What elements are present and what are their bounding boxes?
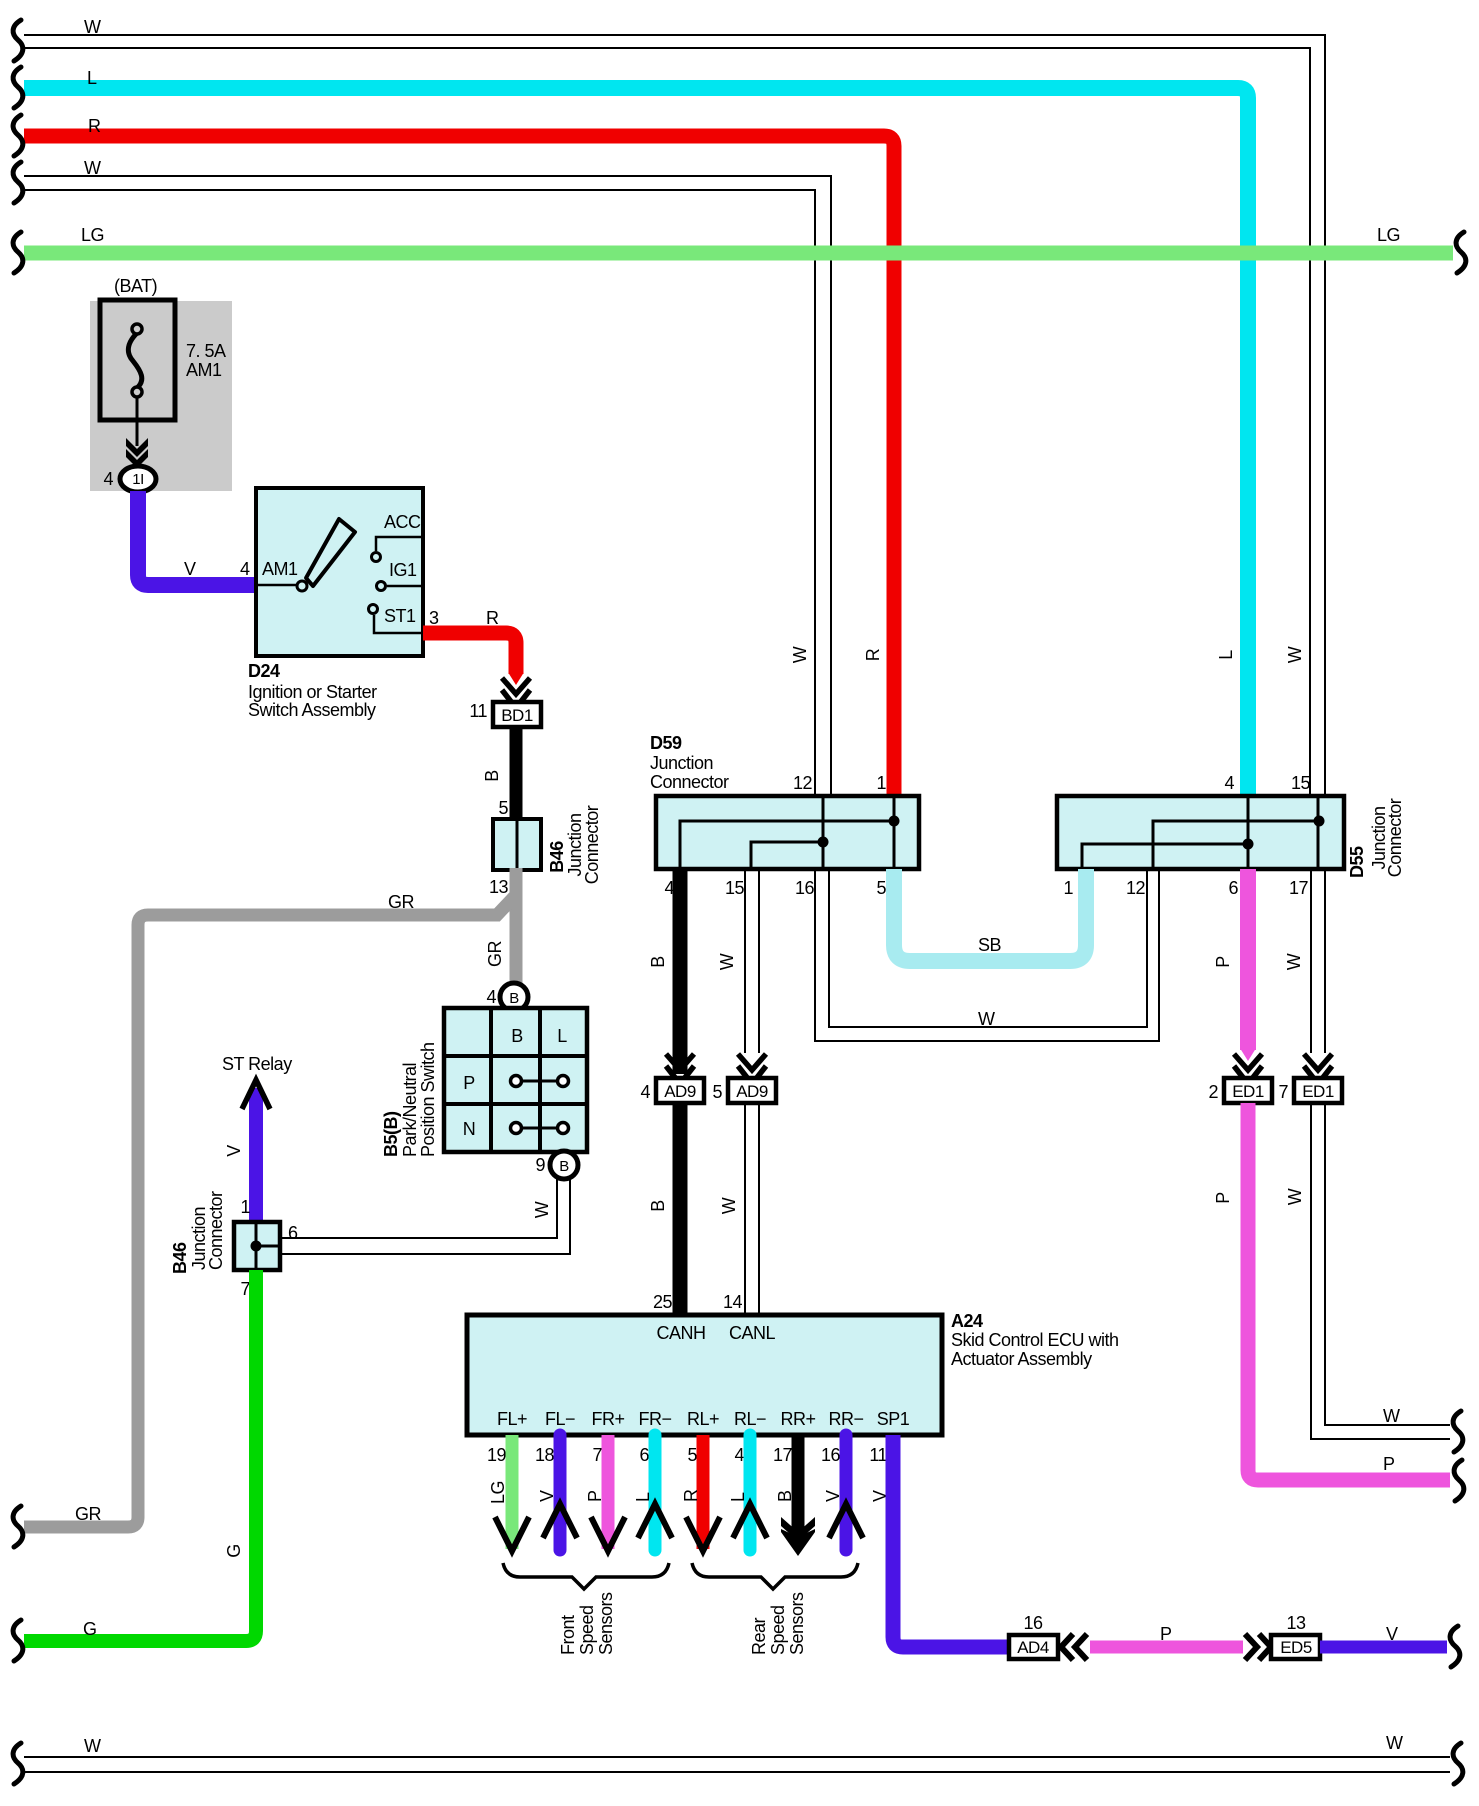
svg-text:4: 4 — [734, 1445, 744, 1465]
svg-text:P: P — [1160, 1624, 1172, 1644]
svg-text:5: 5 — [687, 1445, 697, 1465]
svg-text:Park/Neutral: Park/Neutral — [400, 1063, 420, 1157]
squiggle left end of second W — [13, 162, 23, 203]
svg-text:W: W — [978, 1009, 995, 1029]
svg-text:25: 25 — [653, 1292, 673, 1312]
D24 ACC contact — [372, 512, 424, 562]
svg-text:ED1: ED1 — [1232, 1082, 1264, 1101]
label B46 Junction Connector (rotated) — [547, 805, 602, 884]
squiggle left end of bottom W — [13, 1743, 23, 1784]
svg-text:7. 5A: 7. 5A — [186, 341, 226, 361]
svg-text:W: W — [532, 1201, 552, 1218]
svg-text:5: 5 — [498, 798, 508, 818]
squiggle right end of W — [1453, 1411, 1463, 1452]
svg-text:7: 7 — [240, 1279, 250, 1299]
svg-text:D24: D24 — [248, 661, 280, 681]
D24 ST1 contact — [369, 605, 424, 634]
wire W D55 pin 17 to ED1 (double line) — [1311, 869, 1325, 1053]
arrow into BD1 — [509, 673, 524, 685]
svg-text:4: 4 — [1224, 773, 1234, 793]
svg-text:(BAT): (BAT) — [114, 276, 157, 296]
svg-text:16: 16 — [821, 1445, 841, 1465]
svg-text:P: P — [1213, 956, 1233, 968]
label Front Speed Sensors (rotated) — [558, 1592, 616, 1655]
wire W second horizontal + vertical to D59 pin 12 (double line) — [24, 176, 831, 796]
svg-text:2: 2 — [1208, 1082, 1218, 1102]
wire P (pink) AD4 to ED5 — [1090, 1641, 1243, 1654]
svg-text:1: 1 — [240, 1197, 250, 1217]
junction connector D55 box — [1057, 796, 1344, 869]
D59 internal bus pin1-pin5-pin4 — [680, 796, 900, 869]
squiggle right end of P — [1454, 1460, 1464, 1501]
label D24 Ignition or Starter Switch Assembly — [248, 661, 377, 720]
stub wire B at RR+ with solid down arrow — [781, 1435, 815, 1556]
svg-text:ST Relay: ST Relay — [222, 1054, 292, 1074]
connector ED1 (pin 2) — [1224, 1078, 1272, 1103]
svg-text:LG: LG — [1377, 225, 1400, 245]
svg-text:1: 1 — [1063, 878, 1073, 898]
D24 switch lever — [306, 519, 355, 586]
label A24 Skid Control ECU with Actuator Assembly — [951, 1311, 1119, 1369]
A24 bottom pin number labels — [487, 1445, 888, 1465]
svg-text:4: 4 — [486, 987, 496, 1007]
svg-text:W: W — [717, 953, 737, 970]
svg-text:B: B — [511, 1026, 523, 1046]
wire G (green) B46 pin 7 to bottom left — [24, 1270, 256, 1641]
squiggle left end of wire L — [13, 67, 23, 108]
wire W bottom full-width (double line) — [24, 1757, 1450, 1772]
svg-text:16: 16 — [1023, 1613, 1043, 1633]
connector 1I ellipse — [120, 466, 156, 492]
svg-text:FL+: FL+ — [497, 1409, 527, 1429]
connector AD4 — [1009, 1635, 1058, 1659]
D24 IG1 contact — [377, 560, 424, 591]
D55 internal bus pin4-pin1-pin6 — [1082, 796, 1254, 869]
label B5(B) Park/Neutral Position Switch (rotated) — [381, 1042, 438, 1157]
D59 internal bus pin12-pin16-pin15 — [751, 796, 829, 869]
svg-text:Skid Control ECU with: Skid Control ECU with — [951, 1330, 1119, 1350]
squiggle left end of G — [13, 1620, 23, 1661]
wire W D59 pin 16 to D55 pin 12 (double line) — [815, 869, 1159, 1041]
svg-text:P: P — [1213, 1192, 1233, 1204]
svg-text:1: 1 — [876, 773, 886, 793]
svg-text:P: P — [463, 1073, 475, 1093]
D55 pin labels — [1063, 773, 1310, 898]
svg-text:Sensors: Sensors — [787, 1592, 807, 1655]
svg-text:B5(B): B5(B) — [381, 1111, 401, 1157]
svg-text:SB: SB — [978, 935, 1002, 955]
svg-text:W: W — [719, 1197, 739, 1214]
svg-text:B: B — [482, 770, 502, 782]
svg-text:AD4: AD4 — [1017, 1638, 1049, 1657]
svg-text:P: P — [1383, 1454, 1395, 1474]
D24 AM1 contact and line — [256, 559, 307, 591]
svg-text:B46: B46 — [547, 841, 567, 873]
svg-text:V: V — [184, 559, 196, 579]
arrow into AD9 pin 5 — [738, 1054, 766, 1084]
svg-text:L: L — [87, 68, 97, 88]
brace Front Speed Sensors — [503, 1563, 669, 1589]
svg-text:12: 12 — [1126, 878, 1146, 898]
junction connector B46 (lower) — [234, 1222, 280, 1270]
D55 internal bus pin15-pin12-pin17 — [1153, 796, 1325, 869]
svg-text:12: 12 — [793, 773, 813, 793]
svg-text:11: 11 — [869, 1445, 887, 1465]
squiggle right end of V — [1450, 1626, 1460, 1667]
svg-text:LG: LG — [488, 1481, 508, 1504]
svg-text:Speed: Speed — [768, 1605, 788, 1655]
arrow into ED1 pin 7 — [1304, 1054, 1332, 1084]
svg-text:Connector: Connector — [650, 772, 729, 792]
svg-text:R: R — [681, 1489, 701, 1502]
wire W from B5(B) pin 9 to B46 pin 6 (double line) — [280, 1176, 570, 1254]
svg-text:L: L — [633, 1492, 653, 1502]
svg-text:Switch Assembly: Switch Assembly — [248, 700, 376, 720]
wire R (red) D24 ST1 to BD1 — [423, 633, 516, 674]
svg-text:R: R — [88, 116, 101, 136]
wire B (black) BD1 to B46 pin 5 — [510, 727, 523, 819]
stub wire L at RL- with up arrow — [733, 1435, 767, 1550]
svg-text:5: 5 — [876, 878, 886, 898]
svg-text:15: 15 — [1291, 773, 1311, 793]
svg-text:W: W — [1284, 953, 1304, 970]
svg-text:Front: Front — [558, 1615, 578, 1655]
svg-text:5: 5 — [712, 1082, 722, 1102]
svg-text:W: W — [84, 158, 101, 178]
svg-text:ED1: ED1 — [1302, 1082, 1334, 1101]
wire B (black) AD9 to A24 CANH pin 25 — [673, 1103, 688, 1315]
svg-text:RL+: RL+ — [687, 1409, 719, 1429]
svg-text:BD1: BD1 — [501, 706, 533, 725]
svg-text:Rear: Rear — [749, 1617, 769, 1655]
svg-text:ST1: ST1 — [384, 606, 416, 626]
svg-text:FR+: FR+ — [591, 1409, 624, 1429]
svg-text:B: B — [509, 990, 519, 1007]
svg-text:CANH: CANH — [656, 1323, 705, 1343]
svg-text:R: R — [486, 608, 499, 628]
svg-text:IG1: IG1 — [389, 560, 417, 580]
squiggle left end of wire R — [13, 115, 23, 156]
svg-text:9: 9 — [535, 1155, 545, 1175]
stub wire R at RL+ with down arrow — [686, 1435, 720, 1551]
svg-text:AM1: AM1 — [262, 559, 298, 579]
arrow into ED1 pin 2 — [1241, 1049, 1256, 1061]
squiggle left end of wire W — [13, 20, 23, 61]
svg-text:V: V — [1386, 1624, 1398, 1644]
chevrons left after AD4 — [1061, 1634, 1087, 1660]
arrow into AD9 pin 4 — [666, 1054, 694, 1084]
ignition switch D24 box — [256, 488, 423, 656]
svg-text:GR: GR — [388, 892, 415, 912]
svg-text:Connector: Connector — [206, 1191, 226, 1270]
B5(B) P-row contacts — [511, 1076, 569, 1087]
svg-text:RR+: RR+ — [780, 1409, 815, 1429]
svg-text:B46: B46 — [170, 1242, 190, 1274]
svg-text:D55: D55 — [1347, 846, 1367, 878]
svg-text:Connector: Connector — [582, 805, 602, 884]
svg-text:B: B — [648, 956, 668, 968]
stub wire V at FL- with up arrow — [543, 1435, 577, 1550]
svg-text:RL−: RL− — [734, 1409, 766, 1429]
wire B (black) D59 pin 4 to AD9 — [673, 869, 688, 1074]
connector ED5 — [1271, 1635, 1320, 1659]
wire P (pink) ED1 down and right to edge — [1248, 1103, 1450, 1480]
svg-text:ACC: ACC — [384, 512, 421, 532]
svg-text:17: 17 — [1289, 878, 1309, 898]
connector ED1 (pin 7) — [1294, 1078, 1342, 1103]
wire W top horizontal+right vertical (net W, double line) — [24, 35, 1325, 796]
connector BD1 — [493, 702, 541, 727]
squiggle right end of LG — [1456, 232, 1466, 273]
fuse AM1 box — [100, 300, 175, 420]
svg-text:W: W — [1285, 1188, 1305, 1205]
svg-text:ED5: ED5 — [1280, 1638, 1312, 1657]
brace Rear Speed Sensors — [692, 1563, 858, 1589]
label B46 Junction Connector lower (rotated) — [170, 1191, 226, 1274]
label D55 Junction Connector (rotated) — [1347, 798, 1405, 878]
wire V (violet) from 1I to D24 pin 4 — [138, 491, 256, 585]
svg-text:6: 6 — [288, 1223, 298, 1243]
svg-text:W: W — [84, 17, 101, 37]
squiggle left end of GR — [13, 1506, 23, 1547]
connector AD9 (pin 5) — [728, 1078, 776, 1103]
connector B circle (top) of B5(B) pin 4 — [500, 983, 528, 1011]
svg-text:N: N — [463, 1119, 476, 1139]
stub wire L at FR- with up arrow — [638, 1435, 672, 1550]
battery feed shaded block — [90, 301, 232, 491]
wire V (violet) to ST relay with up arrow — [242, 1080, 270, 1222]
wire W D59 pin 15 to AD9 (double line) — [745, 869, 759, 1053]
wire V (violet) SP1 down and right to AD4 — [893, 1435, 1009, 1647]
svg-text:6: 6 — [1228, 878, 1238, 898]
svg-text:16: 16 — [795, 878, 815, 898]
svg-text:W: W — [1386, 1733, 1403, 1753]
svg-text:SP1: SP1 — [877, 1409, 910, 1429]
connector AD9 (pin 4) — [656, 1078, 704, 1103]
svg-text:B: B — [775, 1490, 795, 1502]
svg-text:Connector: Connector — [1385, 798, 1405, 877]
wire W AD9 to A24 CANL pin 14 (double line) — [745, 1103, 759, 1315]
svg-text:Position Switch: Position Switch — [418, 1042, 438, 1157]
svg-text:AD9: AD9 — [664, 1082, 696, 1101]
svg-text:G: G — [83, 1619, 97, 1639]
svg-text:P: P — [585, 1490, 605, 1502]
wire V (violet) ED5 to right edge — [1320, 1641, 1447, 1654]
svg-text:CANL: CANL — [729, 1323, 776, 1343]
svg-text:B: B — [559, 1158, 569, 1175]
svg-text:A24: A24 — [951, 1311, 983, 1331]
svg-text:RR−: RR− — [828, 1409, 863, 1429]
wire SB (sky blue) D59 pin 5 to D55 pin 1 — [894, 869, 1086, 961]
svg-text:14: 14 — [723, 1292, 743, 1312]
svg-text:R: R — [863, 648, 883, 661]
svg-text:Speed: Speed — [577, 1605, 597, 1655]
svg-text:GR: GR — [485, 940, 505, 967]
svg-text:Sensors: Sensors — [596, 1592, 616, 1655]
svg-text:FL−: FL− — [545, 1409, 575, 1429]
stub wire P at FR+ with down arrow — [591, 1435, 625, 1551]
svg-text:LG: LG — [81, 225, 104, 245]
junction connector B46 (upper) — [493, 819, 541, 870]
fuse AM1 element — [128, 324, 142, 397]
svg-text:W: W — [1383, 1406, 1400, 1426]
svg-text:D59: D59 — [650, 733, 682, 753]
chevrons right before ED5 — [1245, 1634, 1271, 1660]
svg-text:7: 7 — [592, 1445, 602, 1465]
svg-text:Actuator Assembly: Actuator Assembly — [951, 1349, 1092, 1369]
svg-text:18: 18 — [535, 1445, 555, 1465]
park/neutral position switch B5(B) box — [444, 1008, 587, 1152]
stub wire LG at FL+ with down arrow — [495, 1435, 529, 1551]
svg-text:1I: 1I — [132, 471, 144, 488]
svg-text:AM1: AM1 — [186, 360, 222, 380]
wire fuse to connector 1I with solid arrow — [126, 397, 148, 468]
svg-text:FR−: FR− — [638, 1409, 671, 1429]
label Rear Speed Sensors (rotated) — [749, 1592, 807, 1655]
D59 pin labels — [664, 773, 886, 898]
wire LG (light green) full-width horizontal — [24, 246, 1453, 261]
svg-text:3: 3 — [429, 608, 439, 628]
A24 bottom pin name labels — [497, 1409, 910, 1429]
svg-text:15: 15 — [725, 878, 745, 898]
junction connector D59 box — [656, 796, 919, 869]
B5(B) N-row contacts — [511, 1123, 569, 1134]
wire P (pink) D55 pin 6 to ED1 — [1240, 869, 1256, 1050]
svg-text:13: 13 — [489, 877, 509, 897]
svg-text:AD9: AD9 — [736, 1082, 768, 1101]
wire W ED1 down and right to edge (double line) — [1311, 1103, 1450, 1439]
svg-text:7: 7 — [1278, 1082, 1288, 1102]
squiggle left end of LG — [13, 232, 23, 273]
wire GR (gray) B46 pin 13 down to B5(B) — [510, 868, 523, 984]
svg-text:4: 4 — [103, 469, 113, 489]
svg-text:6: 6 — [639, 1445, 649, 1465]
B5(B) cell labels — [463, 1026, 567, 1139]
svg-text:W: W — [1285, 646, 1305, 663]
svg-text:Junction: Junction — [650, 753, 713, 773]
label D59 Junction Connector — [650, 733, 729, 792]
connector B circle (bottom) of B5(B) pin 9 — [550, 1151, 578, 1179]
svg-text:L: L — [1216, 650, 1236, 660]
svg-text:W: W — [790, 646, 810, 663]
svg-text:G: G — [224, 1544, 244, 1558]
svg-text:Ignition or Starter: Ignition or Starter — [248, 682, 377, 702]
squiggle right end of bottom W — [1453, 1743, 1463, 1784]
wire R (red) top horizontal + vertical to D59 pin 1 — [24, 136, 894, 796]
svg-text:13: 13 — [1286, 1613, 1306, 1633]
wire L (cyan) top horizontal + right vertical to D55 pin 4 — [24, 88, 1248, 796]
svg-text:W: W — [84, 1736, 101, 1756]
skid control ECU A24 box — [467, 1315, 942, 1435]
svg-text:11: 11 — [469, 701, 487, 721]
svg-text:17: 17 — [773, 1445, 793, 1465]
svg-text:L: L — [728, 1492, 748, 1502]
svg-text:V: V — [224, 1145, 244, 1157]
svg-text:L: L — [557, 1026, 567, 1046]
svg-text:19: 19 — [487, 1445, 507, 1465]
svg-text:4: 4 — [640, 1082, 650, 1102]
svg-text:V: V — [537, 1490, 557, 1502]
wire GR (gray) branch to left side and down — [24, 897, 514, 1527]
svg-text:B: B — [648, 1200, 668, 1212]
stub wire V at RR- with up arrow — [829, 1435, 863, 1550]
svg-text:V: V — [823, 1490, 843, 1502]
svg-text:GR: GR — [75, 1504, 102, 1524]
svg-text:4: 4 — [240, 559, 250, 579]
